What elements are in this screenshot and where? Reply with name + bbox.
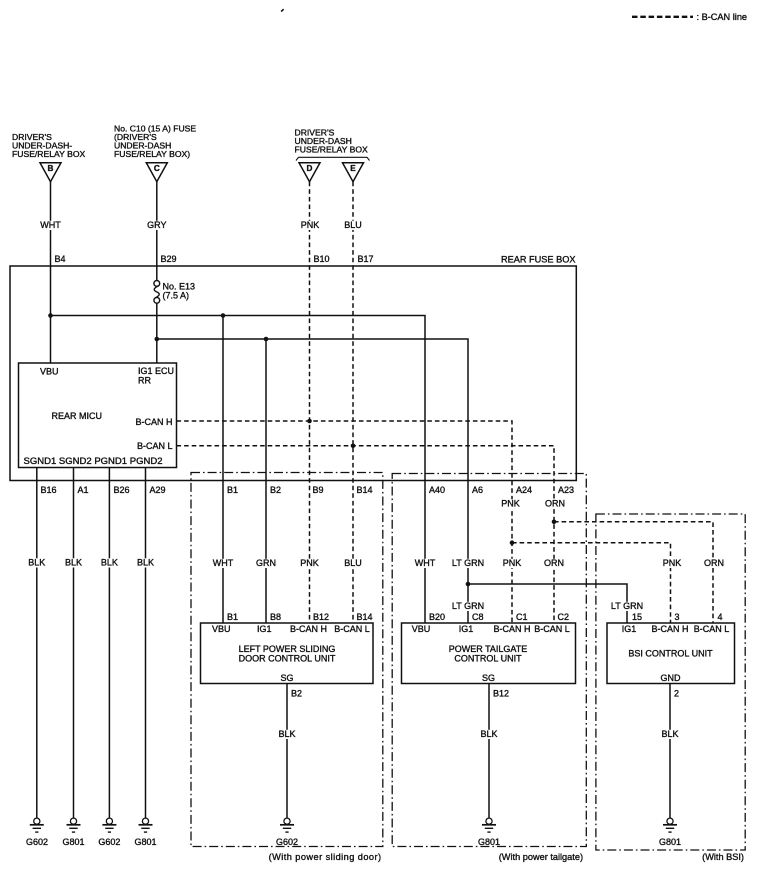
svg-text:E: E: [350, 164, 356, 173]
svg-text:VBU: VBU: [212, 624, 231, 634]
svg-text:DOOR CONTROL UNIT: DOOR CONTROL UNIT: [239, 654, 336, 664]
svg-text:BLK: BLK: [278, 729, 295, 739]
svg-text:B10: B10: [314, 254, 330, 264]
svg-text:BLK: BLK: [101, 558, 118, 568]
svg-text:POWER TAILGATE: POWER TAILGATE: [449, 644, 528, 654]
svg-text:BSI CONTROL UNIT: BSI CONTROL UNIT: [628, 649, 713, 659]
svg-text:B-CAN H: B-CAN H: [135, 417, 172, 427]
svg-text:G602: G602: [26, 837, 48, 847]
svg-text:(7.5 A): (7.5 A): [163, 291, 190, 301]
svg-text:B4: B4: [55, 254, 66, 264]
svg-text:B14: B14: [357, 612, 373, 622]
svg-text:A29: A29: [150, 485, 166, 495]
svg-text:C2: C2: [558, 612, 570, 622]
svg-text:VBU: VBU: [40, 367, 59, 377]
svg-text:LEFT POWER SLIDING: LEFT POWER SLIDING: [239, 644, 336, 654]
svg-text:B-CAN L: B-CAN L: [137, 441, 173, 451]
svg-text:G801: G801: [134, 837, 156, 847]
svg-text:B20: B20: [429, 612, 445, 622]
svg-text:(With BSI): (With BSI): [702, 852, 744, 862]
svg-text:A24: A24: [516, 485, 532, 495]
svg-text:(With power tailgate): (With power tailgate): [499, 852, 583, 862]
svg-text:B16: B16: [41, 485, 57, 495]
svg-text:G602: G602: [276, 837, 298, 847]
svg-text:VBU: VBU: [412, 624, 431, 634]
svg-text:LT GRN: LT GRN: [452, 601, 484, 611]
svg-text:BLK: BLK: [137, 558, 154, 568]
svg-text:BLU: BLU: [344, 220, 362, 230]
svg-text:RR: RR: [138, 376, 151, 386]
svg-text:B14: B14: [357, 485, 373, 495]
svg-text:BLK: BLK: [480, 729, 497, 739]
svg-text:ORN: ORN: [545, 499, 565, 509]
svg-text:A23: A23: [558, 485, 574, 495]
svg-text:B26: B26: [114, 485, 130, 495]
svg-text:ORN: ORN: [704, 558, 724, 568]
svg-text:2: 2: [674, 689, 679, 699]
svg-text:B12: B12: [313, 612, 329, 622]
svg-text:G602: G602: [98, 837, 120, 847]
svg-text:B29: B29: [161, 254, 177, 264]
svg-text:B-CAN H: B-CAN H: [493, 624, 530, 634]
svg-text:GRN: GRN: [256, 558, 276, 568]
svg-text:FUSE/RELAY BOX): FUSE/RELAY BOX): [114, 149, 190, 159]
svg-text:PNK: PNK: [501, 499, 520, 509]
svg-text:IG1: IG1: [257, 624, 272, 634]
svg-text:FUSE/RELAY BOX: FUSE/RELAY BOX: [295, 145, 368, 155]
svg-text:B: B: [48, 164, 54, 173]
svg-text:(With power sliding door): (With power sliding door): [269, 852, 382, 862]
svg-text:B-CAN L: B-CAN L: [534, 624, 570, 634]
svg-text:B12: B12: [493, 689, 509, 699]
svg-text:BLK: BLK: [65, 558, 82, 568]
svg-text:C1: C1: [516, 612, 528, 622]
svg-text:GND: GND: [661, 673, 682, 683]
svg-text:B17: B17: [358, 254, 374, 264]
svg-text:IG1: IG1: [622, 624, 637, 634]
svg-text:A1: A1: [78, 485, 89, 495]
svg-text:G801: G801: [478, 837, 500, 847]
svg-text:SGND1 SGND2 PGND1 PGND2: SGND1 SGND2 PGND1 PGND2: [24, 456, 163, 466]
svg-text:SG: SG: [482, 673, 495, 683]
svg-text:C: C: [154, 164, 160, 173]
svg-text:ORN: ORN: [544, 558, 564, 568]
svg-text:GRY: GRY: [147, 220, 166, 230]
svg-text:WHT: WHT: [213, 558, 234, 568]
svg-text:BLU: BLU: [344, 558, 362, 568]
svg-text:REAR FUSE BOX: REAR FUSE BOX: [501, 255, 576, 265]
svg-text:B9: B9: [313, 485, 324, 495]
svg-text:B-CAN L: B-CAN L: [334, 624, 370, 634]
svg-text:B-CAN H: B-CAN H: [651, 624, 688, 634]
svg-text:REAR MICU: REAR MICU: [52, 411, 103, 421]
svg-text:CONTROL UNIT: CONTROL UNIT: [454, 654, 522, 664]
svg-text:LT GRN: LT GRN: [452, 558, 484, 568]
svg-text:WHT: WHT: [40, 220, 61, 230]
svg-text:BLK: BLK: [28, 558, 45, 568]
svg-text:B-CAN L: B-CAN L: [694, 624, 730, 634]
svg-text:C8: C8: [472, 612, 484, 622]
svg-text:15: 15: [632, 612, 642, 622]
svg-text:B1: B1: [227, 612, 238, 622]
svg-text:D: D: [307, 164, 313, 173]
svg-text:B8: B8: [270, 612, 281, 622]
svg-text:B-CAN H: B-CAN H: [290, 624, 327, 634]
svg-text:B2: B2: [291, 689, 302, 699]
svg-text:LT GRN: LT GRN: [611, 601, 643, 611]
svg-text:PNK: PNK: [301, 220, 320, 230]
svg-text:G801: G801: [659, 837, 681, 847]
svg-text:G801: G801: [62, 837, 84, 847]
svg-text:B1: B1: [227, 485, 238, 495]
svg-text:A6: A6: [472, 485, 483, 495]
svg-text:B2: B2: [270, 485, 281, 495]
svg-text:4: 4: [718, 612, 723, 622]
svg-text:A40: A40: [429, 485, 445, 495]
svg-text:PNK: PNK: [300, 558, 319, 568]
svg-text:PNK: PNK: [503, 558, 522, 568]
svg-text:WHT: WHT: [415, 558, 436, 568]
svg-text:IG1: IG1: [459, 624, 474, 634]
svg-text:BLK: BLK: [661, 729, 678, 739]
svg-text:SG: SG: [280, 673, 293, 683]
svg-text:: B-CAN line: : B-CAN line: [697, 12, 748, 22]
svg-text:PNK: PNK: [663, 558, 682, 568]
svg-text:IG1 ECU: IG1 ECU: [138, 366, 174, 376]
svg-text:FUSE/RELAY BOX: FUSE/RELAY BOX: [12, 149, 85, 159]
svg-text:3: 3: [675, 612, 680, 622]
